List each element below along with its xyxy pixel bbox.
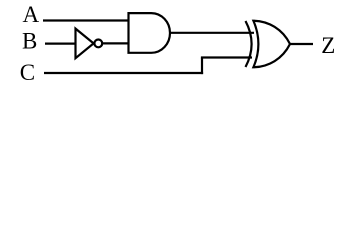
svg-text:Z: Z (321, 33, 335, 58)
NOT gate (inverter) triangle (76, 29, 94, 59)
XOR gate extra input arc (246, 21, 252, 67)
wire from A to AND gate pin 1 (43, 19, 129, 21)
NOT gate bubble (94, 40, 102, 48)
AND gate (129, 13, 170, 53)
wire from AND gate output to XOR gate top input (170, 32, 254, 34)
svg-text:A: A (23, 2, 40, 27)
svg-text:B: B (22, 28, 37, 53)
wire C upper segment to XOR gate bottom input (201, 56, 252, 58)
wire C vertical riser (201, 58, 203, 75)
wire C horizontal bottom segment (44, 72, 203, 74)
wire from XOR gate output to Z (290, 43, 314, 45)
svg-text:C: C (20, 60, 35, 85)
wire from B to NOT gate (45, 42, 76, 44)
XOR gate body (253, 21, 290, 68)
wire from NOT gate bubble to AND gate pin 2 (103, 42, 130, 44)
